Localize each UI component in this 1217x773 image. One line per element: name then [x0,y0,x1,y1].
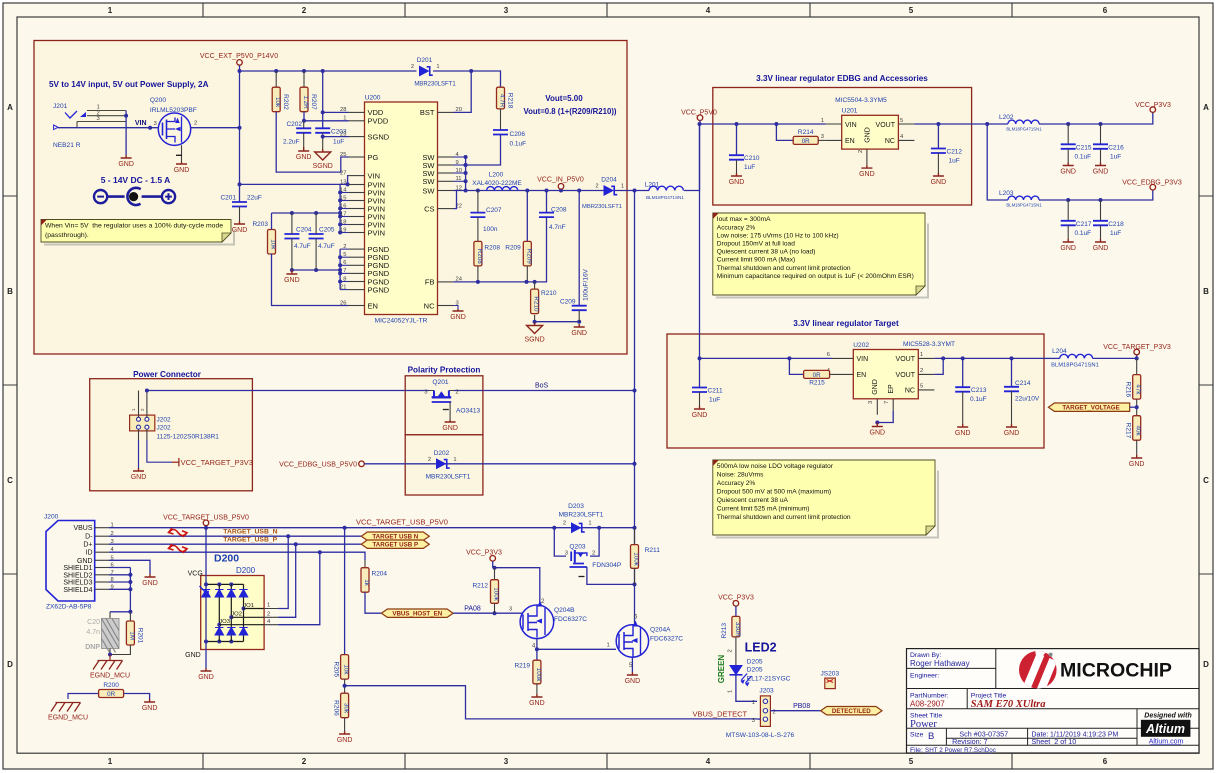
ground [337,731,353,744]
power port VCC_EXT_P5V0_P14V0 [200,53,278,65]
capacitor C218 wiring [1100,200,1102,221]
LED D205 [730,659,791,687]
wire R217 gnd [1136,440,1138,455]
wire VOUT to ferrites [972,123,1008,125]
wire main OR node vertical [634,191,636,626]
wire VIN row block2 [713,123,826,125]
svg-text:8: 8 [343,276,346,282]
svg-text:6: 6 [343,260,346,266]
resistor R212 [491,580,500,604]
wire host en row [453,612,523,614]
ground EGND_MCU 1 [90,661,130,680]
svg-text:PG: PG [368,153,379,162]
svg-text:4.7uF: 4.7uF [294,243,311,250]
connector J201 [53,103,126,149]
ground [131,468,147,481]
inductor L201 [645,182,685,201]
svg-text:Vout=0.8 (1+(R209/R210)): Vout=0.8 (1+(R209/R210)) [523,107,616,116]
svg-text:FB: FB [425,278,435,287]
svg-text:VCC_TARGET_USB_P5V0: VCC_TARGET_USB_P5V0 [356,518,448,527]
svg-text:1: 1 [821,118,824,124]
svg-text:2: 2 [411,64,414,70]
wire J202 pins to BoS row [138,391,140,418]
svg-text:5: 5 [343,252,346,258]
svg-text:Thermal shutdown and current l: Thermal shutdown and current limit prote… [717,265,851,272]
power port VCC_P3V3 led [718,595,754,617]
svg-text:1: 1 [752,700,755,706]
svg-text:MIC5504-3.3YM5: MIC5504-3.3YM5 [835,97,887,104]
svg-text:R202: R202 [282,94,289,110]
svg-text:22u/10V: 22u/10V [1015,396,1040,403]
svg-text:22uF: 22uF [247,195,262,202]
block: Polarity Protection upper [405,376,483,435]
wire divider to VBUS_DETECT run [345,686,756,719]
wire L201 to VCC_P5V0 corner [684,124,713,191]
svg-text:5: 5 [909,6,914,15]
ground [625,672,641,685]
wire R213 to LED [735,637,737,665]
svg-text:C210: C210 [744,155,760,162]
svg-text:Dropout 150mV at full load: Dropout 150mV at full load [717,241,795,248]
wire divider top [1136,358,1138,374]
power port VCC_P5V0 [681,110,717,127]
resistor R201 [126,621,143,645]
wire VCC_P5V0 down to target block [700,124,833,358]
svg-text:GND: GND [571,330,587,337]
capacitor C213 [955,387,970,392]
svg-text:BST: BST [420,108,435,117]
svg-text:DNP: DNP [85,644,100,651]
ground [1060,239,1076,252]
IC D200 [185,553,264,660]
svg-text:VIN: VIN [368,171,381,180]
text size row [910,730,1119,747]
svg-text:GND: GND [174,167,190,174]
svg-text:17: 17 [340,211,346,217]
svg-text:MIC24052YJL-TR: MIC24052YJL-TR [375,318,428,325]
svg-text:R210: R210 [533,296,540,312]
svg-text:R215: R215 [809,380,825,387]
svg-text:C206: C206 [510,131,526,138]
svg-text:GND: GND [77,558,93,565]
svg-text:B: B [7,287,13,296]
svg-text:R200: R200 [103,682,119,689]
svg-text:GND: GND [859,171,875,178]
svg-text:File:: File: [910,747,923,754]
svg-text:SHIELD1: SHIELD1 [63,565,92,572]
svg-text:J202: J202 [157,417,171,424]
svg-text:FDC6327C: FDC6327C [554,616,587,623]
svg-text:U200: U200 [365,95,381,102]
transistor Q203 [565,544,622,569]
svg-text:47k: 47k [1135,384,1142,395]
ground [1129,455,1145,468]
svg-text:MBR230LSFT1: MBR230LSFT1 [582,204,622,210]
svg-text:D204: D204 [601,177,617,184]
wire VBUS to R205 [344,528,346,655]
svg-text:Power Connector: Power Connector [133,370,202,379]
ground [118,155,134,168]
wire R205 R206 junction [344,679,346,693]
svg-text:JO2: JO2 [231,612,242,618]
svg-text:100k: 100k [633,552,640,567]
svg-text:SGND: SGND [368,132,390,141]
svg-text:Q201: Q201 [432,379,448,386]
svg-text:SW: SW [422,177,435,186]
wire D- row [109,535,361,537]
svg-text:3: 3 [868,401,874,404]
svg-text:GND: GND [296,154,312,161]
svg-text:EP: EP [888,384,895,394]
wire CS to SW node [454,191,457,209]
svg-text:C205: C205 [319,227,335,234]
svg-text:ID: ID [86,550,93,557]
svg-text:Low noise: 175 uVrms (10 Hz to: Low noise: 175 uVrms (10 Hz to 100 kHz) [717,232,839,239]
Microchip logo [1019,650,1172,694]
svg-text:TARGET_USB_P: TARGET_USB_P [223,537,277,544]
svg-text:Size: Size [910,732,923,739]
svg-text:PB08: PB08 [793,703,810,710]
row letters [7,103,1209,669]
wire PVDD node to C202 [303,121,305,129]
capacitor C204 [284,234,299,239]
svg-text:SHIELD4: SHIELD4 [63,587,92,594]
svg-text:C207: C207 [486,207,502,214]
resistor R208 [474,241,500,266]
capacitor C210 wiring [736,124,738,155]
ground [859,165,875,178]
inductor L202 [999,114,1042,132]
svg-text:BLM18PG471SN1: BLM18PG471SN1 [1006,203,1042,208]
svg-text:U202: U202 [853,342,869,349]
capacitor C206b DNP hatched [85,619,119,653]
svg-text:R212: R212 [472,583,488,590]
svg-text:2: 2 [428,457,431,463]
wire U202 gnd ep join [877,411,893,423]
wire SW bus [465,157,467,191]
flag TARGET_USB_N [361,532,429,540]
capacitor C212 [931,149,946,154]
svg-text:JO3: JO3 [219,619,231,625]
svg-text:3: 3 [504,757,509,766]
svg-text:PVDD: PVDD [368,117,389,126]
svg-text:21: 21 [340,284,346,290]
svg-text:6: 6 [827,352,830,358]
wire ID to R204 [364,560,366,568]
svg-text:1uF: 1uF [1110,154,1121,161]
svg-text:1125-1202S0R138R1: 1125-1202S0R138R1 [157,434,220,441]
svg-text:(passthrough).: (passthrough). [45,232,89,239]
wire R212 bottom [494,603,496,613]
svg-text:MBR230LSFT1: MBR230LSFT1 [414,82,456,88]
svg-text:TARGET_USB_N: TARGET_USB_N [223,529,277,536]
svg-text:2: 2 [456,389,459,395]
capacitor C205 [309,234,324,239]
resistor R210 [531,289,540,314]
wire BST to rail [454,71,472,112]
svg-text:0.1uF: 0.1uF [510,141,527,148]
svg-text:GND: GND [450,314,466,321]
svg-text:7: 7 [343,268,346,274]
resistor R217 [1125,416,1142,441]
wire through D200 vertical [205,528,207,668]
svg-text:VCC_P3V3: VCC_P3V3 [466,550,502,557]
svg-text:C: C [7,476,13,485]
svg-text:J202: J202 [157,425,171,432]
svg-text:4: 4 [706,6,711,15]
flag TARGET_VOLTAGE [1048,403,1129,411]
resistor R213 [732,616,741,637]
IC U200 [340,95,463,325]
svg-text:100k: 100k [535,668,542,683]
resistor R218 [497,87,514,109]
svg-text:GND: GND [1004,430,1020,437]
IC U202 [827,341,955,415]
svg-text:EGND_MCU: EGND_MCU [48,715,88,722]
wire SW to R209 [526,191,528,242]
wire C207 to R208 [477,217,479,241]
svg-text:40k: 40k [1135,425,1142,436]
svg-text:Q203: Q203 [569,544,585,551]
power port VCC_P3V3 mid [466,550,502,568]
svg-text:GND: GND [284,277,300,284]
svg-text:XAL4020-222ME: XAL4020-222ME [472,180,522,187]
svg-text:1: 1 [453,457,456,463]
svg-text:GND: GND [442,425,458,432]
svg-text:30k: 30k [343,703,350,714]
svg-text:BLM18PG471SN1: BLM18PG471SN1 [1051,363,1099,369]
svg-text:GND: GND [1060,245,1076,252]
wire to EGND_MCU [109,655,111,661]
svg-text:JO1: JO1 [243,603,254,609]
svg-text:GND: GND [185,652,201,659]
wire ferrite junction vertical [987,124,1008,200]
Altium logo [1141,713,1192,746]
svg-text:C: C [1203,476,1209,485]
svg-text:Q200: Q200 [150,97,166,104]
diff pair marker 1 [169,528,188,537]
wire BoS row [147,390,635,392]
block: 3.3V linear regulator Target [667,334,1044,448]
svg-text:D201: D201 [417,57,433,64]
power bar label VCC_TARGET_P3V3 [172,458,253,467]
svg-text:2: 2 [595,184,598,190]
wire top rail VDD [240,70,417,72]
ground [931,173,947,186]
svg-text:GND: GND [872,379,879,395]
wire EN branch [776,124,793,140]
transistor Q201 [424,379,480,415]
wire flag to node [1130,406,1137,408]
wire JO3 to ID row [278,552,320,625]
capacitor C216 wiring [1100,124,1102,144]
svg-text:R203: R203 [252,221,268,228]
wire R202 to PG loop [276,112,348,172]
svg-text:SGND: SGND [524,337,544,344]
svg-text:Q204B: Q204B [554,607,575,614]
resistor R216 [1125,375,1142,400]
svg-text:Power: Power [910,719,937,730]
svg-text:D-: D- [85,534,93,541]
svg-text:2: 2 [728,649,734,652]
capacitor C207 [470,213,485,218]
svg-text:A: A [7,103,13,112]
svg-text:2: 2 [267,611,270,617]
D200 bottom rail [206,641,244,643]
svg-text:GND: GND [142,705,158,712]
ground [870,423,886,437]
svg-text:1: 1 [588,521,591,527]
svg-text:VOUT: VOUT [896,372,916,379]
svg-text:Roger Hathaway: Roger Hathaway [910,659,970,668]
svg-text:GND: GND [955,430,971,437]
svg-text:R211: R211 [645,547,661,554]
wire VDD pin [323,111,349,113]
svg-text:1uF: 1uF [709,397,720,404]
svg-text:MICROCHIP: MICROCHIP [1060,661,1172,682]
diode D202 [428,450,457,470]
wire J202 pin4 to VCC_TARGET_P3V3 [146,429,148,440]
wire L204 out [1044,357,1060,359]
wire Q203 source to node [587,567,635,584]
svg-text:SAM E70 XUltra: SAM E70 XUltra [971,699,1046,710]
svg-text:R214: R214 [798,129,814,136]
svg-text:1: 1 [607,643,610,649]
svg-text:14: 14 [340,187,347,193]
wire R216 R217 mid [1136,399,1138,415]
svg-text:23: 23 [340,131,346,137]
svg-text:100n: 100n [483,226,498,233]
svg-text:R219: R219 [514,663,530,670]
svg-text:Quiescent current 38 uA (no lo: Quiescent current 38 uA (no load) [717,249,816,256]
svg-text:1: 1 [108,6,113,15]
inductor L200 [472,172,522,191]
svg-text:Revision: 7: Revision: 7 [952,737,988,746]
svg-text:MBR230LSFT1: MBR230LSFT1 [426,474,471,481]
capacitor C210 [729,155,744,160]
ground [571,324,587,337]
ground SGND [313,149,333,170]
wire JO2 to D+ row [278,544,296,617]
svg-text:0R: 0R [107,691,115,698]
svg-text:SGND: SGND [313,163,333,170]
svg-text:C212: C212 [947,149,963,156]
jumper JS203 [820,671,839,689]
wire C203 down [322,133,324,149]
wire R210 to C209 gnd row [535,321,580,323]
wire D203 bypass left [554,528,566,556]
flag VBUS_HOST_EN [381,609,453,617]
svg-text:2: 2 [302,6,307,15]
svg-text:6: 6 [1103,757,1108,766]
svg-text:3.3V linear regulator EDBG and: 3.3V linear regulator EDBG and Accessori… [756,74,928,83]
svg-text:0.1uF: 0.1uF [1075,154,1092,161]
svg-text:L200: L200 [489,172,504,179]
svg-text:2: 2 [592,551,595,557]
svg-text:1: 1 [267,603,270,609]
svg-text:15: 15 [340,195,346,201]
svg-text:2.2uF: 2.2uF [283,139,300,146]
resistor R207 [300,87,317,112]
wire R211 bottom [634,568,636,584]
svg-text:500mA low noise LDO voltage re: 500mA low noise LDO voltage regulator [717,463,834,470]
wire FB row [454,281,535,283]
resistor R206 [333,693,350,718]
svg-text:Polarity Protection: Polarity Protection [408,366,481,375]
svg-text:R201: R201 [136,628,143,644]
capacitor C214 [1004,387,1019,392]
wire VDD rail to C203 [322,71,324,128]
svg-text:GND: GND [337,737,353,744]
svg-text:16: 16 [340,203,346,209]
ground EGND_MCU 2 [48,703,88,722]
capacitor C203 [315,128,330,133]
ground [1093,163,1109,176]
svg-text:D205: D205 [747,659,763,666]
wire Q204A source gnd [631,657,633,672]
diode D203 [563,521,592,534]
svg-text:R210: R210 [541,290,557,297]
svg-text:2: 2 [858,150,864,153]
resistor R200 [99,682,124,698]
capacitor C201 [232,202,247,207]
svg-text:330R: 330R [734,622,741,638]
wire shield bus [129,568,131,612]
capacitor C211 wiring [699,358,701,387]
svg-text:VBUS: VBUS [73,525,92,532]
svg-text:D205: D205 [747,667,763,674]
wire R210 bottom [534,315,536,322]
ground [296,147,312,161]
svg-text:B: B [928,731,934,742]
svg-text:6: 6 [1103,6,1108,15]
D200 JO pins [217,603,278,627]
svg-text:100uF/16V: 100uF/16V [583,268,590,300]
IC U201 [821,97,915,165]
capacitor C214 wiring [1011,358,1013,386]
svg-text:A08-2907: A08-2907 [910,700,945,709]
svg-text:10k: 10k [343,664,350,675]
svg-text:AO3413: AO3413 [456,408,481,415]
svg-text:5V to 14V input, 5V out Power: 5V to 14V input, 5V out Power Supply, 2A [49,80,209,89]
svg-text:FDC6327C: FDC6327C [650,636,683,643]
svg-text:C218: C218 [1108,221,1124,228]
svg-text:C208: C208 [551,207,567,214]
svg-text:C214: C214 [1015,380,1031,387]
transistor Q204B [520,599,587,650]
svg-text:Minimum capacitance required o: Minimum capacitance required on output i… [717,273,914,280]
svg-text:VCG: VCG [188,571,203,578]
svg-text:Accuracy 2%: Accuracy 2% [717,480,756,487]
svg-text:GND: GND [142,580,158,587]
svg-text:PA08: PA08 [464,606,481,613]
svg-text:U201: U201 [842,108,858,115]
svg-text:19: 19 [340,227,346,233]
block: 3.3V linear regulator EDBG [713,88,972,206]
svg-text:C216: C216 [1108,145,1124,152]
svg-text:5: 5 [909,757,914,766]
svg-text:C215: C215 [1076,145,1092,152]
power port VCC_TARGET_P3V3 [1103,344,1171,355]
svg-text:4.7nF: 4.7nF [549,224,566,231]
svg-text:7: 7 [884,401,890,404]
svg-text:Drawn By:: Drawn By: [910,652,941,659]
wire GND pin J200 [109,560,150,574]
flag DETECT/LED [821,707,882,715]
svg-text:R206: R206 [333,700,340,716]
svg-text:5 - 14V DC - 1.5 A: 5 - 14V DC - 1.5 A [101,175,171,185]
capacitor C216 [1093,144,1108,149]
